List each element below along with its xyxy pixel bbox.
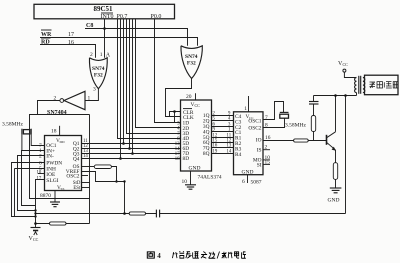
ground below 374 xyxy=(185,185,196,189)
svg-text:IN-: IN- xyxy=(46,154,54,160)
wire U3 output down to ring xyxy=(38,101,60,115)
junction OS drop on VREF jog xyxy=(115,180,117,182)
wire INH down xyxy=(14,169,16,217)
wire PWDN loop to supply node xyxy=(12,163,45,217)
svg-text:1: 1 xyxy=(100,52,103,58)
IC U4 MT8870 xyxy=(45,136,82,192)
wire P0.3 bus to 6D xyxy=(129,19,131,149)
wire ESt stub xyxy=(82,187,90,189)
junction P0.3/6D xyxy=(128,147,131,150)
svg-text:1: 1 xyxy=(88,95,91,101)
junction rail B battery xyxy=(34,222,37,225)
5087 GND pin 6 lead xyxy=(242,175,248,185)
svg-text:1: 1 xyxy=(244,106,247,112)
capacitor C10 on rail A xyxy=(156,210,159,218)
8870 Q pin numbers 11-14 xyxy=(83,139,88,159)
svg-text:OSC1: OSC1 xyxy=(248,118,261,124)
IC U7 TP5087 xyxy=(234,112,264,176)
svg-text:ESt: ESt xyxy=(73,186,81,191)
D/Q wire 8870 Q4 to 374 8D xyxy=(82,158,181,160)
wire U5 output to 374 CLK xyxy=(166,79,192,117)
junction VREF drop xyxy=(123,180,125,182)
caption 图4 双音多频发送/接收电路 (glyph blocks) xyxy=(147,252,154,258)
svg-text:16: 16 xyxy=(68,40,74,46)
svg-text:SLGI: SLGI xyxy=(46,178,58,184)
wire P0.1 bus to 2D xyxy=(136,19,181,128)
svg-text:CC: CC xyxy=(195,103,201,108)
svg-text:20: 20 xyxy=(186,94,192,100)
svg-text:16: 16 xyxy=(213,144,218,149)
svg-text:4: 4 xyxy=(157,252,161,260)
wire collector rail y96 xyxy=(314,95,357,97)
resistor R6 emitter xyxy=(333,163,337,180)
junction IN- on battery line xyxy=(34,209,36,211)
crystal X1 3.58MHz at 8870 xyxy=(22,129,31,135)
svg-text:OSC2: OSC2 xyxy=(248,125,261,131)
8870 VDD pin 18 stub xyxy=(51,126,60,136)
svg-text:2: 2 xyxy=(39,153,42,159)
wire transformer primary bottom xyxy=(356,93,358,96)
wire ring around 8870 (top/left/bottom) xyxy=(30,115,90,199)
junction return riser on rail xyxy=(344,94,347,97)
svg-text:74ALS374: 74ALS374 xyxy=(198,175,222,181)
svg-text:89C51: 89C51 xyxy=(93,5,113,13)
svg-text:7: 7 xyxy=(265,115,268,121)
svg-text:6: 6 xyxy=(242,179,245,185)
wire SLGT pin17 to battery line xyxy=(36,180,45,206)
svg-text:SN74: SN74 xyxy=(185,54,198,60)
wire ring right edge down to rail B xyxy=(89,115,91,224)
svg-text:F32: F32 xyxy=(187,61,196,67)
wire P0.2 bus to 7D xyxy=(132,19,134,154)
resistor R5 vertical xyxy=(311,116,315,132)
svg-text:IO: IO xyxy=(256,138,262,144)
svg-text:17: 17 xyxy=(68,32,74,38)
svg-text:SN74: SN74 xyxy=(92,66,105,72)
svg-text:13: 13 xyxy=(227,144,232,149)
svg-text:GND: GND xyxy=(189,165,201,171)
svg-text:SS: SS xyxy=(61,187,65,191)
junction P0.6/8D xyxy=(119,157,122,160)
junction rail A VREF drop xyxy=(123,212,126,215)
junction P0.2/7D xyxy=(131,152,134,155)
svg-text:Q4: Q4 xyxy=(73,156,80,162)
svg-text:3.58MHz: 3.58MHz xyxy=(2,122,23,128)
wire INT0 from 89C51 to OR gate U2 input 1 xyxy=(104,19,106,58)
svg-text:CC: CC xyxy=(343,62,349,67)
5087 Vcc pin 1 stub xyxy=(244,96,248,112)
svg-text:3: 3 xyxy=(93,87,96,93)
374 GND pin 10 lead xyxy=(182,171,191,185)
transistor Q1 xyxy=(327,132,336,151)
junction rail A battery xyxy=(34,212,36,214)
svg-text:14: 14 xyxy=(83,154,88,159)
battery Vcc supply bottom-left xyxy=(31,206,41,236)
svg-text:16: 16 xyxy=(265,135,271,141)
89C51 pin label INT0 xyxy=(101,13,114,20)
junction PWDN on battery line xyxy=(34,215,36,217)
wires 374 Q outputs to 5087 inputs xyxy=(212,116,234,154)
5087 left pin numbers xyxy=(227,112,232,155)
phone network label 接电话网 (glyph blocks) xyxy=(370,82,399,88)
svg-text:CC: CC xyxy=(33,237,39,242)
wire 374 CLR jog xyxy=(170,112,181,117)
box phone network 接电话网 xyxy=(365,75,399,95)
374 right pin numbers xyxy=(213,112,218,155)
svg-text:14: 14 xyxy=(227,150,232,155)
ground below 8870 Vss xyxy=(50,191,60,207)
wire OSC2 stub xyxy=(82,175,89,177)
wire IO pin 16 to base resistor xyxy=(263,140,294,142)
wire INH stub xyxy=(15,168,45,170)
svg-text:15: 15 xyxy=(265,160,271,166)
junction collector on rail xyxy=(334,94,337,97)
junction on CLR wire xyxy=(173,110,176,113)
wire crystal X1 left lead to IN+ vertical xyxy=(21,135,23,150)
svg-text:IOE: IOE xyxy=(46,172,56,178)
svg-text:OSC2: OSC2 xyxy=(66,174,79,180)
5087 MO stub pin 10 xyxy=(263,155,270,161)
wire U2 output to inverter U3 input xyxy=(85,89,98,101)
wire R5 to base line xyxy=(313,132,315,141)
svg-text:2: 2 xyxy=(90,52,93,58)
MCU 89C51 U1 xyxy=(34,4,175,18)
svg-text:GND: GND xyxy=(242,169,254,175)
wire OC1 pin7 to crystal X1 xyxy=(31,135,44,146)
wire StD stub xyxy=(82,182,90,184)
svg-text:18: 18 xyxy=(51,129,57,135)
WR label pin 17 xyxy=(41,30,74,38)
wire VREF jog xyxy=(82,172,125,182)
IC U5b 74ALS374 xyxy=(181,100,212,171)
8870 left pin numbers xyxy=(37,143,43,182)
resistor R4 on rail B xyxy=(50,222,67,225)
rail A audio line xyxy=(36,213,346,215)
wire P0.6 bus to 8D xyxy=(120,19,122,159)
resistor R1 base series xyxy=(294,139,309,142)
wire IOE stub pin10 xyxy=(38,173,45,175)
wire collector up to rail node xyxy=(335,96,337,132)
wire audio return riser xyxy=(345,96,347,214)
svg-text:8D: 8D xyxy=(183,156,190,162)
wire emitter down to resistor xyxy=(335,150,337,163)
transformer T1 xyxy=(355,76,365,94)
wire P0.7 bus to 4D xyxy=(118,19,181,139)
capacitor C9 coupling xyxy=(309,96,319,116)
ground GND right xyxy=(328,188,342,204)
svg-text:19: 19 xyxy=(213,150,218,155)
wire stub from CLR junction to 1D wire xyxy=(174,112,176,123)
junction node A on INT0/C8 line xyxy=(103,27,106,30)
svg-text:8: 8 xyxy=(265,122,268,128)
svg-text:IS: IS xyxy=(257,148,262,154)
wire P0.5 bus to 5D xyxy=(123,19,125,144)
svg-text:5087: 5087 xyxy=(251,180,262,186)
svg-text:P0.7: P0.7 xyxy=(117,14,128,20)
or-gate U5 SN74F32 right xyxy=(181,46,202,79)
svg-text:F32: F32 xyxy=(94,73,103,79)
svg-text:P0.0: P0.0 xyxy=(151,14,162,20)
svg-text:3.58MHz: 3.58MHz xyxy=(285,123,306,129)
wire resistor to base xyxy=(308,140,326,142)
resistor R3 on rail A xyxy=(129,212,145,215)
svg-text:2: 2 xyxy=(265,145,268,151)
svg-text:8870: 8870 xyxy=(40,193,51,199)
374 left pin numbers xyxy=(175,121,180,161)
5087 IS stub pin 2 xyxy=(263,145,270,151)
D/Q wire 8870 Q3 to 374 7D xyxy=(82,153,181,155)
resistor R2 on OS pin xyxy=(82,165,117,182)
D/Q wire 8870 Q1 to 374 5D xyxy=(82,143,181,145)
svg-text:8Q: 8Q xyxy=(203,151,210,157)
svg-text:R4: R4 xyxy=(235,152,242,158)
Vcc terminal top right xyxy=(338,61,357,78)
RD label pin 16 xyxy=(41,38,74,46)
svg-text:WR: WR xyxy=(41,32,52,38)
svg-text:10: 10 xyxy=(182,179,188,185)
wire RD to OR gate U2 input 2 xyxy=(40,45,96,58)
wire P0.4 bus to 3D xyxy=(127,19,181,134)
svg-text:10: 10 xyxy=(37,171,42,176)
wire C8 line to OR gate U5 input xyxy=(85,29,188,46)
wire IN+ loop to supply node xyxy=(22,151,45,206)
wire IN- loop to supply node xyxy=(18,156,45,211)
wire resistor to ground xyxy=(335,179,337,188)
svg-text:DD: DD xyxy=(60,140,66,144)
or-gate U2 SN74F32 left xyxy=(89,58,107,89)
D/Q wire 8870 Q2 to 374 6D xyxy=(82,148,181,150)
svg-text:GND: GND xyxy=(328,198,340,204)
Vcc label bottom-left xyxy=(29,236,39,242)
374 Vcc pin 20 stub xyxy=(186,93,196,100)
inverter U3 SN7404 xyxy=(60,91,85,109)
svg-text:18: 18 xyxy=(175,157,180,162)
crystal X2 3.58MHz xyxy=(263,102,289,128)
svg-text:INT0: INT0 xyxy=(101,14,114,20)
svg-text:SI: SI xyxy=(257,162,262,168)
wire P0.0 bus to 1D xyxy=(155,19,181,123)
svg-text:RD: RD xyxy=(41,40,50,46)
rail B to ring xyxy=(36,223,90,225)
wire WR to OR gate U5 input xyxy=(40,38,198,46)
junction P0.5/5D xyxy=(122,142,125,145)
svg-text:C8: C8 xyxy=(86,23,93,29)
5087 SI stub pin 15 xyxy=(263,160,270,166)
wire OS/VREF drop to rail A xyxy=(124,182,126,214)
